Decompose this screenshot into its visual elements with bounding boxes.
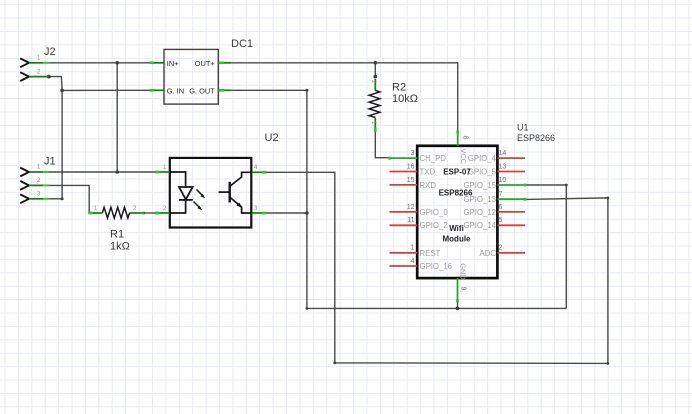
ESP8266 module U1 [388,122,555,302]
U2 pin 2 [156,212,170,214]
J2 pin 2 line [29,76,49,78]
svg-text:ADC: ADC [480,249,497,258]
junction R2 pin2 end [373,75,377,79]
svg-text:U1: U1 [517,122,529,132]
R1 pin 1 (left) [89,212,102,214]
svg-text:R1: R1 [110,229,124,241]
DC-DC converter DC1 [149,38,253,104]
svg-text:2: 2 [37,69,41,75]
wire J2 pin2 corner [49,77,62,91]
svg-text:1: 1 [163,165,167,171]
wire left tall vertical [306,90,308,308]
svg-text:GPIO_0: GPIO_0 [420,208,449,217]
wire J1 pin2 down to R1 [49,185,90,213]
DC1 pin IN+ [151,62,165,64]
svg-text:GPIO_12: GPIO_12 [463,208,496,217]
connector J2 [20,46,55,81]
svg-text:DC1: DC1 [231,38,253,50]
svg-text:Wifi: Wifi [449,224,464,233]
U2 phototransistor collector lead [230,172,251,186]
U2 phototransistor base stub [219,191,230,193]
joint dot GPIO_15 corner [565,184,568,187]
R2 pin 2 (top) [374,79,376,91]
svg-text:4: 4 [411,258,415,265]
J2 pin 2 chevron [20,72,29,81]
svg-text:10kΩ: 10kΩ [392,93,418,105]
svg-text:2: 2 [499,245,503,252]
U1 body [417,146,497,278]
U2 LED triangle [179,187,193,199]
svg-text:ESP-07: ESP-07 [443,167,471,176]
svg-text:1: 1 [94,206,98,212]
wire U2 pin3 to vertical [265,212,307,214]
U1 pin 10 GPIO_15 (connected, green) [497,184,525,186]
J1 pin 1 chevron [20,168,29,177]
R2 pin 1 (bottom) [374,118,376,131]
svg-text:1: 1 [37,165,41,171]
svg-text:J2: J2 [44,46,56,58]
svg-text:1: 1 [411,245,415,252]
J1 pin 1 line [29,171,43,173]
svg-text:4: 4 [254,165,258,171]
svg-text:GPIO_16: GPIO_16 [420,262,453,271]
svg-text:G. OUT: G. OUT [189,86,215,95]
svg-text:13: 13 [499,163,507,170]
U2 pin 3 [251,212,265,214]
wire vertical top rail to J1 pin1 [116,63,118,172]
svg-text:GPIO_4: GPIO_4 [468,154,497,163]
resistor R1 [88,206,158,253]
wire R2 top connection [374,63,376,77]
svg-text:6: 6 [499,204,503,211]
U2 light arrow 1 [197,190,204,197]
svg-text:CH_PD: CH_PD [420,154,447,163]
svg-text:7: 7 [499,191,503,198]
U2 LED cathode bar [179,199,193,201]
svg-text:J1: J1 [44,156,56,168]
J2 pin 1 chevron [20,58,29,67]
svg-text:3: 3 [411,150,415,157]
svg-text:OUT+: OUT+ [195,59,215,68]
DC1 pin G.IN [151,89,165,91]
svg-text:GND: GND [459,263,468,279]
U2 phototransistor emitter lead [230,198,251,214]
connector J1 [20,156,55,204]
junction U2 pin3 on vertical [305,211,309,215]
svg-text:G. IN: G. IN [167,86,184,95]
U2 light arrow 2 [194,202,201,209]
J1 pin 2 line [29,184,43,186]
U2 LED anode lead [170,172,186,187]
wire R1 pin2 to U2 pin2 [143,212,157,214]
junction at top rail and J1 vertical [115,61,119,65]
svg-text:14: 14 [499,150,507,157]
U1 pin 6 GPIO_12 [497,211,525,213]
J1 pin 2 chevron [20,181,29,190]
svg-text:TXD: TXD [420,167,436,176]
svg-text:U2: U2 [265,132,279,144]
R1 zigzag body [102,207,129,218]
wire G.OUT to left tall vertical [232,89,307,91]
wire J1 pin1 to U2 pin1 [49,171,157,173]
svg-text:11: 11 [407,217,414,224]
joint dot G.OUT corner [305,89,308,92]
U2 LED cathode lead [170,200,186,213]
svg-text:10: 10 [499,177,507,184]
wire GPIO_15 to corner and down [525,185,566,308]
svg-text:GPIO_14: GPIO_14 [463,221,496,230]
svg-text:REST: REST [420,249,441,258]
R2 zigzag body [369,90,380,117]
svg-text:1: 1 [37,56,41,62]
U1 pin 15 RXD [390,184,418,186]
svg-text:RXD: RXD [420,181,437,190]
svg-text:2: 2 [133,206,137,212]
junction GND pin on rail [456,307,460,311]
U1 pin 11 GPIO_2 [390,224,418,226]
U1 pin 14 GPIO_4 [497,157,525,159]
junction J2 pin2 [47,75,51,79]
U1 pin 5 GPIO_14 [497,224,525,226]
U2 pin 1 [156,171,170,173]
J2 pin 1 line [29,62,43,64]
wire GND rail [307,307,566,309]
junction R2 top on OUT+ rail [374,61,378,65]
svg-text:3: 3 [254,206,258,212]
svg-text:3: 3 [37,192,41,198]
svg-text:IN+: IN+ [167,59,179,68]
junction J1 pin1 vertical [115,170,119,174]
U2 body [170,158,252,228]
U1 pin 7 GPIO_13 (connected, green) [497,198,525,200]
junction G.IN corner [60,89,64,93]
svg-text:12: 12 [407,204,415,211]
wire OUT+ rail to VCC corner [232,63,458,132]
U2 phototransistor base bar [228,182,230,203]
joint dot GND rail left corner [306,307,309,310]
U1 pin 16 TXD [390,171,418,173]
svg-text:2: 2 [163,206,167,212]
svg-text:15: 15 [407,177,415,184]
svg-text:8: 8 [462,136,469,140]
R1 pin 2 (right) [130,212,144,214]
DC1 pin G.OUT [218,89,232,91]
wire R2 bottom to CH_PD [375,131,389,158]
svg-text:5: 5 [499,217,503,224]
svg-text:GPIO_5: GPIO_5 [468,167,497,176]
wire bottom rail [335,362,608,365]
J1 pin 3 chevron [20,194,29,203]
U1 pin 2 ADC [497,252,525,254]
U1 pin 12 GPIO_0 [390,211,418,213]
U1 pin 1 REST [390,252,418,254]
U1 pin 8 VCC (top, green) [457,132,459,146]
joint dot J1 pin3 corner [61,197,64,200]
U1 pin 3 CH_PD (connected, green) [390,157,418,159]
joint dot bottom rail right corner [607,362,610,365]
svg-text:9: 9 [460,287,467,291]
U1 pin 9 GND (bottom, green) [457,278,459,301]
U2 emitter arrowhead [236,203,242,208]
U2 pin 4 [251,171,265,173]
resistor R2 [369,79,418,132]
svg-text:16: 16 [407,163,415,170]
svg-text:GPIO_2: GPIO_2 [420,221,448,230]
svg-text:ESP8266: ESP8266 [439,189,473,198]
wire GPIO_13 slanted and down [525,198,608,364]
optocoupler U2 [155,132,279,228]
svg-text:1kΩ: 1kΩ [110,241,130,253]
DC1 pin OUT+ [218,62,232,64]
wire G.IN row [62,89,150,91]
svg-text:Module: Module [443,235,472,244]
joint dot bottom rail left corner [333,362,336,365]
DC1 body [164,49,218,104]
wire vertical J2 pin2 to J1 pin3 [49,90,63,198]
J1 pin 3 line [29,198,43,200]
svg-text:VCC: VCC [459,148,468,164]
wire J2 pin1 to DC1 IN+ [49,62,151,64]
U1 pin 4 GPIO_16 [390,265,418,267]
wire U2 pin4 right and down [265,172,335,363]
wire GND pin drop [457,301,459,308]
joint dot GPIO_13 corner [607,197,610,200]
U1 pin 13 GPIO_5 [497,171,525,173]
svg-text:ESP8266: ESP8266 [517,133,555,143]
svg-text:2: 2 [37,178,41,184]
